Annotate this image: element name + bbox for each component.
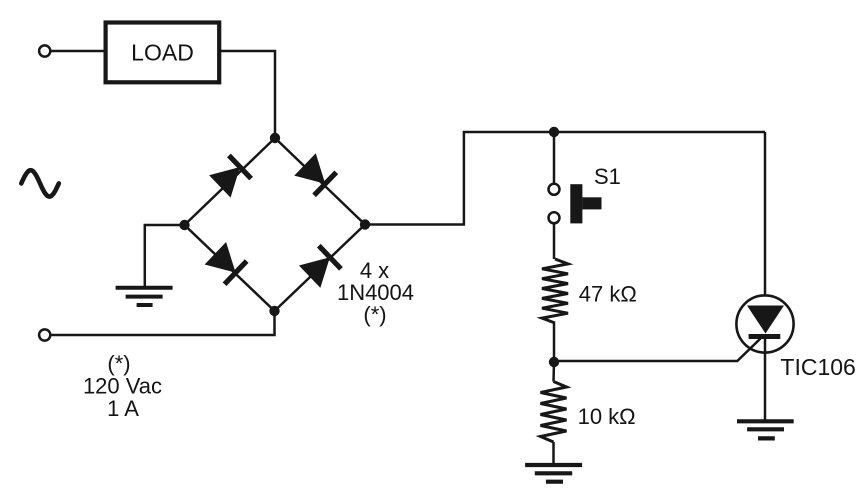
svg-text:10 kΩ: 10 kΩ <box>578 404 636 429</box>
wire bridge arm: left node to bottom node <box>185 225 275 311</box>
terminal J1 (top left) <box>39 45 50 56</box>
svg-text:TIC106: TIC106 <box>780 354 855 380</box>
svg-text:1 A: 1 A <box>107 396 139 421</box>
diode D2 (bridge upper-right arm) <box>294 153 338 197</box>
note label (*) 120 Vac 1 A <box>83 351 162 421</box>
svg-text:(*): (*) <box>363 302 386 327</box>
svg-text:(*): (*) <box>107 351 130 376</box>
node: divider junction <box>549 357 559 367</box>
wire top rail to SCR anode <box>764 132 767 296</box>
diode D3 (bridge lower-left arm) <box>204 242 248 286</box>
wire bridge arm: left node to top node <box>185 138 276 225</box>
AC source sine symbol <box>21 170 59 196</box>
switch S1 contact (top) <box>549 184 560 195</box>
wire switch to R1 <box>553 224 556 260</box>
node: bridge right junction <box>360 219 370 229</box>
wire bridge right node to top rail <box>365 132 765 225</box>
terminal J2 (bottom left) <box>39 329 50 340</box>
wire R2 to ground <box>552 442 555 463</box>
wire divider junction to SCR gate <box>554 339 761 362</box>
wire divider junction down to R2 <box>552 362 555 382</box>
value label 4 x 1N4004 (*) <box>337 258 414 327</box>
ground (below R2) <box>525 465 582 482</box>
load box <box>106 23 220 83</box>
resistor R1 47k zigzag <box>542 259 568 323</box>
ground (bridge negative) <box>116 288 173 305</box>
SCR U1 TIC106 <box>736 295 793 352</box>
svg-text:S1: S1 <box>594 164 621 189</box>
node: top rail junction <box>549 127 559 137</box>
switch S1 contact (bottom) <box>549 212 560 223</box>
wire bridge arm: bottom node to right node <box>275 225 366 312</box>
diode D4 (bridge lower-right arm) <box>299 244 343 288</box>
wire R1 to divider junction <box>553 323 556 362</box>
node: bridge left junction <box>179 220 189 230</box>
wire LOAD to bridge top corner <box>220 51 276 134</box>
diode D1 (bridge upper-left arm) <box>209 154 253 198</box>
svg-text:LOAD: LOAD <box>131 39 194 65</box>
svg-text:120 Vac: 120 Vac <box>83 374 162 399</box>
wire bridge arm: top node to right node <box>275 138 365 225</box>
node: bridge top junction <box>270 133 280 143</box>
switch S1 pushbutton actuator <box>570 184 601 223</box>
node: bridge bottom junction <box>269 306 279 316</box>
ground (below SCR) <box>737 421 794 438</box>
wire top rail junction down to switch <box>553 132 556 184</box>
wire J2 to bridge bottom corner <box>51 311 275 335</box>
svg-text:47 kΩ: 47 kΩ <box>579 282 637 307</box>
wire J1 to LOAD <box>51 50 105 53</box>
resistor R2 10k zigzag <box>541 382 567 443</box>
wire SCR cathode to ground <box>764 339 767 420</box>
wire bridge left node to ground stub <box>145 225 185 286</box>
